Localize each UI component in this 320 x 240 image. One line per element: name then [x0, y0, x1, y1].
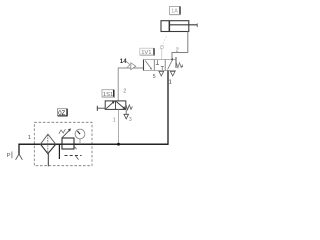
svg-text:5: 5: [153, 74, 156, 80]
svg-text:2: 2: [176, 47, 179, 53]
svg-text:1: 1: [28, 135, 31, 141]
svg-text:1S1: 1S1: [103, 92, 113, 98]
svg-text:1: 1: [169, 80, 172, 86]
svg-text:1V1: 1V1: [141, 50, 151, 56]
svg-text:P: P: [7, 153, 11, 159]
svg-text:3: 3: [129, 117, 132, 123]
svg-text:2: 2: [123, 88, 126, 94]
svg-text:1: 1: [113, 118, 116, 124]
svg-text:14: 14: [120, 58, 127, 65]
svg-text:0Z: 0Z: [58, 111, 65, 117]
svg-text:1A: 1A: [171, 9, 178, 15]
